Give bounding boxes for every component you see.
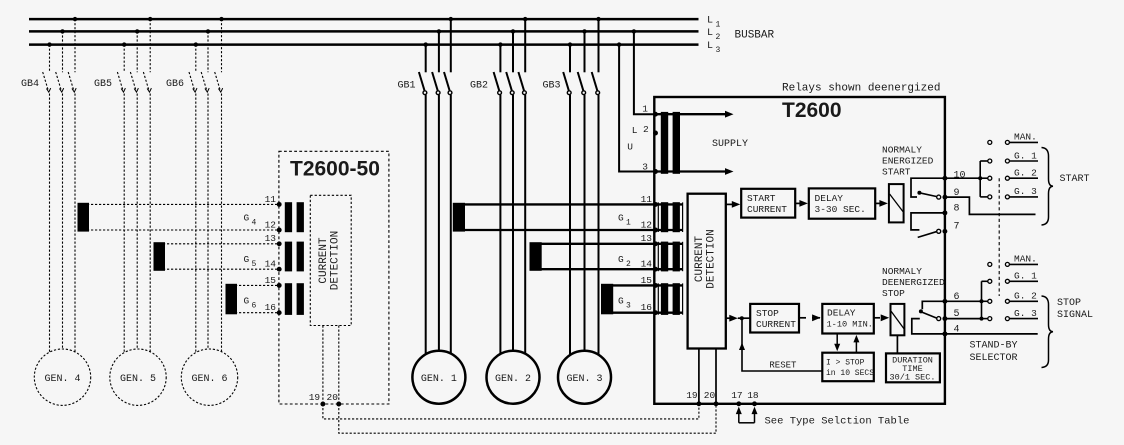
svg-text:START: START	[882, 167, 911, 178]
svg-text:3: 3	[642, 161, 648, 172]
svg-text:STOP: STOP	[882, 288, 905, 299]
svg-text:L: L	[707, 16, 713, 27]
stop selector MAN contact	[988, 254, 1038, 267]
label terminal 1	[642, 104, 648, 115]
svg-text:RESET: RESET	[769, 360, 797, 370]
svg-text:3: 3	[626, 302, 631, 311]
circuit breaker GB5 (3 poles)	[117, 17, 152, 352]
svg-text:7: 7	[954, 222, 960, 233]
svg-text:GEN. 3: GEN. 3	[566, 374, 602, 385]
label terminal 12 left	[265, 219, 277, 230]
label GB4	[21, 79, 39, 90]
label G2	[618, 254, 631, 269]
block DELAY 3-30 SEC	[809, 188, 875, 218]
label terminal 3	[642, 161, 648, 172]
svg-text:BUSBAR: BUSBAR	[735, 30, 775, 42]
current detection box U1	[688, 194, 726, 349]
svg-text:G. 3: G. 3	[1014, 308, 1037, 319]
block I > STOP in 10 SECS	[822, 353, 874, 382]
svg-text:GB3: GB3	[543, 81, 561, 92]
label L1	[707, 16, 721, 30]
block START CURRENT	[741, 189, 795, 218]
busbar L2	[29, 30, 699, 33]
circuit breaker GB3 (3 poles)	[563, 17, 601, 355]
svg-text:G: G	[618, 254, 624, 265]
generator GEN. 1	[412, 351, 465, 404]
svg-text:STOP: STOP	[756, 308, 779, 319]
generator GEN. 5	[110, 349, 166, 405]
svg-text:START: START	[747, 193, 776, 204]
wire stop coil to duration box	[896, 335, 898, 353]
svg-text:2: 2	[716, 33, 721, 42]
label terminal 11	[641, 194, 653, 205]
svg-text:10: 10	[954, 171, 966, 182]
label GB1	[398, 81, 416, 92]
label G5	[244, 254, 257, 269]
svg-text:13: 13	[641, 233, 653, 244]
svg-text:NORMALY: NORMALY	[882, 266, 922, 277]
stop selector G.3 contact	[988, 308, 1038, 321]
svg-text:CURRENT: CURRENT	[318, 237, 330, 284]
svg-text:3: 3	[716, 46, 721, 55]
svg-text:DETECTION: DETECTION	[706, 229, 718, 288]
svg-text:G: G	[244, 213, 250, 224]
svg-text:GB2: GB2	[470, 81, 488, 92]
svg-text:GB4: GB4	[21, 79, 39, 90]
label terminal 16 left	[265, 302, 277, 313]
start selector bus	[978, 161, 988, 197]
svg-text:CURRENT: CURRENT	[756, 319, 796, 330]
svg-text:1: 1	[642, 104, 648, 115]
relay coil K1 normally energized start	[889, 184, 904, 222]
svg-text:CURRENT: CURRENT	[747, 204, 787, 215]
label G1	[618, 213, 631, 228]
svg-text:L: L	[707, 28, 713, 39]
terminal 20 (T2600-50)	[327, 392, 342, 406]
wire terminal 6 to stop selector	[945, 300, 982, 302]
svg-text:DEENERGIZED: DEENERGIZED	[882, 277, 945, 288]
wire L2 busbar to T2600 terminal 1	[632, 29, 656, 114]
generator GEN. 3	[558, 351, 611, 404]
svg-text:4: 4	[252, 219, 257, 228]
svg-text:CURRENT: CURRENT	[694, 236, 706, 283]
selector mechanical link (dashed)	[998, 178, 1000, 296]
svg-text:DETECTION: DETECTION	[330, 231, 342, 290]
wire terminal 5 to stop selector	[945, 318, 982, 320]
label STOP SIGNAL	[1057, 298, 1093, 321]
circuit breaker GB2 (3 poles)	[494, 17, 528, 354]
terminal 7	[942, 222, 959, 234]
svg-text:G. 1: G. 1	[1014, 271, 1037, 282]
terminal 20 (T2600)	[704, 390, 719, 406]
svg-text:1: 1	[626, 219, 631, 228]
svg-text:GB6: GB6	[166, 79, 184, 90]
svg-text:See Type Selction Table: See Type Selction Table	[765, 416, 910, 428]
label GB5	[94, 79, 112, 90]
svg-text:U: U	[627, 142, 633, 153]
label terminal 2 (L 2)	[632, 124, 649, 136]
label L3	[707, 41, 721, 55]
arrow delay down to I>STOP	[834, 334, 840, 352]
block STOP CURRENT	[750, 304, 799, 333]
svg-text:16: 16	[265, 302, 277, 313]
current transformer G6 (terminals 15,16)	[226, 283, 304, 315]
arrow current detection to stop current	[726, 315, 750, 322]
stop selector G.1 contact	[988, 271, 1038, 284]
svg-text:17: 17	[731, 390, 742, 401]
brace START	[1042, 148, 1054, 226]
svg-text:GEN. 5: GEN. 5	[120, 374, 156, 385]
wire terminal 9 return	[945, 197, 1036, 214]
svg-text:G. 2: G. 2	[1014, 291, 1037, 302]
terminal 19 (T2600-50)	[309, 392, 326, 406]
svg-text:G. 1: G. 1	[1014, 150, 1037, 161]
svg-text:14: 14	[641, 259, 653, 270]
terminal 8	[942, 203, 959, 215]
svg-text:GEN. 4: GEN. 4	[44, 374, 80, 385]
label terminal 13 left	[265, 233, 277, 244]
current transformer G2 (terminals 13,14)	[530, 241, 683, 271]
start selector G.1 contact	[988, 150, 1038, 163]
reset feedback wire	[739, 318, 822, 371]
start selector G.2 contact	[988, 168, 1038, 181]
svg-text:START: START	[1060, 174, 1090, 185]
svg-text:SELECTOR: SELECTOR	[970, 353, 1018, 364]
terminal 19 (T2600)	[686, 390, 701, 406]
svg-text:2: 2	[643, 124, 649, 135]
svg-text:MAN.: MAN.	[1014, 254, 1037, 265]
svg-text:T2600: T2600	[782, 99, 842, 122]
svg-text:15: 15	[641, 275, 653, 286]
T2600-50 enclosure box	[279, 151, 389, 404]
supply transformer T2600 (terminals 1,2,3)	[653, 111, 733, 175]
generator GEN. 2	[487, 351, 540, 404]
svg-text:DELAY: DELAY	[815, 193, 844, 204]
svg-text:30/1 SEC.: 30/1 SEC.	[890, 373, 936, 383]
svg-text:1: 1	[716, 21, 721, 30]
relay coil K2 normally deenergized stop	[891, 304, 905, 335]
terminal 9	[942, 188, 959, 200]
label RESET	[769, 360, 797, 370]
svg-text:in 10 SECS: in 10 SECS	[826, 369, 874, 378]
label terminal 13	[641, 233, 653, 244]
svg-text:8: 8	[954, 203, 960, 214]
svg-text:G. 3: G. 3	[1014, 186, 1037, 197]
label terminal 16	[641, 302, 653, 313]
svg-text:20: 20	[704, 390, 716, 401]
arrow stop current to delay	[799, 314, 821, 321]
label G3	[618, 296, 631, 311]
svg-text:18: 18	[747, 390, 759, 401]
circuit breaker GB6 (3 poles)	[189, 17, 224, 352]
note See Type Selction Table	[765, 416, 910, 428]
label START	[1060, 174, 1090, 185]
svg-text:15: 15	[265, 275, 277, 286]
svg-text:GEN. 1: GEN. 1	[421, 374, 457, 385]
label L2 BUSBAR	[707, 28, 775, 42]
terminal 10	[942, 171, 965, 182]
svg-text:GEN. 6: GEN. 6	[191, 374, 227, 385]
svg-text:I > STOP: I > STOP	[826, 359, 865, 368]
svg-text:G. 2: G. 2	[1014, 168, 1037, 179]
label GB6	[166, 79, 184, 90]
svg-text:16: 16	[641, 302, 653, 313]
dashed wire 20 to 20	[339, 404, 716, 433]
svg-text:NORMALY: NORMALY	[882, 145, 922, 156]
current transformer G5 (terminals 13,14)	[154, 241, 304, 271]
wire terminal 4	[945, 333, 1038, 335]
dashed wire 19 to 19	[323, 404, 699, 419]
label U	[627, 142, 633, 153]
wires to terminals 19,20 (T2600-50)	[323, 326, 339, 405]
svg-text:5: 5	[252, 260, 257, 269]
wire L3 busbar to T2600 terminal 3	[617, 42, 656, 171]
svg-text:19: 19	[686, 390, 698, 401]
circuit breaker GB1 (3 poles)	[419, 17, 453, 354]
circuit breaker GB4 (3 poles)	[43, 17, 78, 352]
title T2600-50	[290, 158, 380, 181]
svg-text:GB5: GB5	[94, 79, 112, 90]
svg-text:GEN. 2: GEN. 2	[495, 374, 531, 385]
svg-text:DELAY: DELAY	[827, 308, 856, 319]
svg-text:STOP: STOP	[1057, 298, 1081, 309]
arrows into terminals 17,18	[736, 407, 758, 423]
note Relays shown deenergized	[782, 83, 940, 95]
label STAND-BY SELECTOR	[970, 341, 1018, 365]
start selector MAN contact	[988, 132, 1038, 145]
svg-text:1-10 MIN.: 1-10 MIN.	[827, 320, 873, 330]
current transformer G4 (terminals 11,12)	[78, 202, 304, 233]
generator GEN. 4	[34, 349, 90, 405]
T2600 enclosure box	[654, 97, 945, 404]
svg-text:20: 20	[327, 392, 339, 403]
svg-text:19: 19	[309, 392, 321, 403]
label terminal 14 left	[265, 259, 277, 270]
svg-text:SUPPLY: SUPPLY	[712, 139, 748, 150]
label SUPPLY	[712, 139, 748, 150]
svg-text:12: 12	[265, 219, 277, 230]
svg-text:11: 11	[641, 194, 653, 205]
block DELAY 1-10 MIN	[822, 304, 874, 334]
stop selector G.2 contact	[988, 291, 1038, 304]
arrow current detection to start current	[726, 201, 741, 208]
terminal 6	[942, 292, 959, 304]
label terminal 15	[641, 275, 653, 286]
svg-text:STAND-BY: STAND-BY	[970, 341, 1018, 352]
wire terminal 10 to start selector	[945, 177, 980, 179]
svg-text:G: G	[618, 213, 624, 224]
svg-text:3-30 SEC.: 3-30 SEC.	[815, 204, 866, 215]
svg-text:G: G	[244, 296, 250, 307]
arrow delay to stop relay coil	[874, 314, 889, 321]
svg-text:L: L	[707, 41, 713, 52]
brace STOP	[1042, 296, 1054, 368]
svg-text:13: 13	[265, 233, 277, 244]
title T2600	[782, 99, 842, 122]
svg-text:Relays shown deenergized: Relays shown deenergized	[782, 83, 940, 95]
arrow I>STOP up to delay	[853, 335, 859, 353]
svg-text:ENERGIZED: ENERGIZED	[882, 156, 934, 167]
terminal 5	[942, 309, 959, 321]
label terminal 12	[641, 219, 653, 230]
relay contact start 8-7	[911, 213, 945, 238]
block DURATION TIME 30/1 SEC	[886, 353, 940, 382]
label terminal 11 left	[265, 194, 277, 205]
wires current detection to terminals 19,20	[699, 349, 716, 404]
label GB3	[543, 81, 561, 92]
svg-text:T2600-50: T2600-50	[290, 158, 380, 181]
label terminal 15 left	[265, 275, 277, 286]
svg-text:GB1: GB1	[398, 81, 416, 92]
current transformer G3 (terminals 15,16)	[601, 283, 683, 315]
label G6	[244, 296, 257, 311]
svg-text:MAN.: MAN.	[1014, 132, 1037, 143]
svg-text:SIGNAL: SIGNAL	[1057, 310, 1093, 321]
svg-text:14: 14	[265, 259, 277, 270]
generator GEN. 6	[181, 349, 237, 405]
svg-text:6: 6	[252, 302, 257, 311]
busbar L3	[29, 43, 699, 46]
stop selector bus	[980, 281, 988, 320]
arrow delay to start relay coil	[875, 200, 888, 207]
label NORMALY DEENERGIZED STOP	[882, 266, 945, 299]
terminal 18	[747, 390, 759, 406]
svg-text:12: 12	[641, 219, 653, 230]
relay contact stop 6-5-4	[912, 301, 945, 334]
current detection box (T2600-50)	[310, 195, 351, 325]
terminal 17	[731, 390, 742, 406]
svg-text:L: L	[632, 125, 638, 136]
arrow start current to delay	[795, 200, 808, 207]
terminal 4	[942, 325, 959, 337]
svg-text:G: G	[244, 254, 250, 265]
label NORMALY ENERGIZED START	[882, 145, 934, 178]
label GB2	[470, 81, 488, 92]
label terminal 14	[641, 259, 653, 270]
label G4	[244, 213, 257, 228]
svg-text:11: 11	[265, 194, 277, 205]
busbar L1	[29, 18, 699, 21]
start selector G.3 contact	[988, 186, 1038, 199]
svg-text:2: 2	[626, 260, 631, 269]
relay contact start 10-9	[911, 178, 945, 199]
svg-text:G: G	[618, 296, 624, 307]
current transformer G1 (terminals 11,12)	[453, 202, 683, 233]
